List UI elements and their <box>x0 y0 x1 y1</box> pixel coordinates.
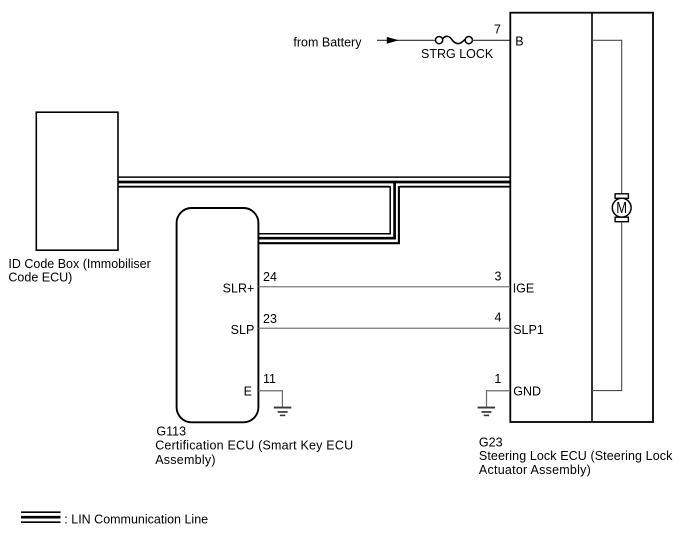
wire: motor loop top <box>592 40 622 194</box>
svg-text:3: 3 <box>495 270 502 284</box>
svg-text:11: 11 <box>263 372 276 386</box>
motor M1: bottom brush <box>615 217 628 222</box>
svg-text:4: 4 <box>495 311 502 325</box>
wire: GND pin to ground <box>487 391 511 407</box>
wire: LIN branch outer line <box>258 186 399 243</box>
motor M1: top brush <box>615 194 628 199</box>
svg-text:G113: G113 <box>156 424 186 438</box>
svg-text:STRG LOCK: STRG LOCK <box>421 47 494 61</box>
fuse STRG LOCK: wave element <box>443 36 465 43</box>
svg-text:B: B <box>515 35 523 49</box>
wire: LIN branch middle line (thick) <box>258 181 394 238</box>
svg-text:IGE: IGE <box>513 282 535 296</box>
ground symbol (E pin) <box>274 407 292 417</box>
svg-text:Certification ECU (Smart Key E: Certification ECU (Smart Key ECU <box>155 439 353 453</box>
svg-text:Steering Lock ECU (Steering Lo: Steering Lock ECU (Steering Lock <box>479 449 673 463</box>
motor M1: body circle <box>612 198 631 217</box>
wire: battery feed with arrow <box>377 39 435 41</box>
wire: LIN branch inner line <box>258 186 390 234</box>
svg-text:24: 24 <box>263 270 277 284</box>
wire: LIN bus bottom line right segment <box>400 186 511 188</box>
svg-text:1: 1 <box>494 372 501 386</box>
wire: motor loop bottom <box>592 222 622 391</box>
svg-text:from Battery: from Battery <box>293 35 362 49</box>
svg-text:Actuator Assembly): Actuator Assembly) <box>479 463 591 477</box>
ECU box U2: Certification ECU outline <box>177 208 259 422</box>
wire: fuse to pin B <box>472 39 510 41</box>
fuse STRG LOCK: right terminal circle <box>465 37 472 44</box>
svg-text:7: 7 <box>494 22 501 36</box>
ECU box U1: ID Code Box outline <box>36 112 118 250</box>
fuse STRG LOCK: left terminal circle <box>436 37 443 44</box>
svg-text:Assembly): Assembly) <box>155 453 216 467</box>
svg-text:Code ECU): Code ECU) <box>8 271 72 285</box>
svg-text:SLP: SLP <box>231 323 255 337</box>
svg-text:: LIN Communication Line: : LIN Communication Line <box>64 512 208 526</box>
arrowhead on battery feed <box>387 37 399 44</box>
ECU box U3: Steering Lock ECU outline <box>510 13 653 422</box>
wire: SLR+ to IGE <box>258 286 510 288</box>
svg-text:GND: GND <box>513 385 541 399</box>
svg-text:SLR+: SLR+ <box>223 282 255 296</box>
wire: LIN bus bottom line left segment <box>118 186 390 188</box>
wire: SLP to SLP1 <box>258 327 510 329</box>
legend: LIN line swatch top <box>21 511 61 513</box>
ground symbol (GND pin) <box>478 407 496 417</box>
wire: LIN bus top line (thin) <box>118 176 510 178</box>
wire: LIN bus middle line (thick) <box>118 181 510 184</box>
svg-text:G23: G23 <box>479 435 503 449</box>
svg-text:SLP1: SLP1 <box>513 323 544 337</box>
svg-text:23: 23 <box>263 312 277 326</box>
legend: LIN line swatch middle <box>21 516 61 519</box>
svg-text:M: M <box>616 200 627 217</box>
wire: E pin to ground <box>258 391 282 407</box>
svg-text:ID Code Box (Immobiliser: ID Code Box (Immobiliser <box>8 257 150 271</box>
legend: LIN line swatch bottom <box>21 521 61 523</box>
Steering Lock ECU internal divider <box>591 13 593 422</box>
svg-text:E: E <box>244 385 252 399</box>
